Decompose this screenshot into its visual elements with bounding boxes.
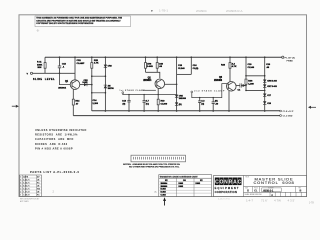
svg-text:CLAMP: CLAMP (77, 62, 85, 65)
svg-text:71 6': 71 6' (261, 199, 268, 203)
svg-text:2N3906 R.A.: 2N3906 R.A. (226, 9, 243, 13)
capacitor C17 (199, 98, 201, 101)
svg-text:4-26-71: 4-26-71 (23, 179, 29, 182)
svg-text:D-663: D-663 (147, 66, 154, 68)
svg-text:9-21-71: 9-21-71 (23, 189, 29, 191)
svg-text:C: C (238, 180, 242, 186)
svg-text:O: O (219, 180, 223, 186)
svg-text:D-663: D-663 (272, 86, 277, 88)
svg-text:THIS SCHEMATIC IS FURNISHED ON: THIS SCHEMATIC IS FURNISHED ONLY FOR USE… (36, 16, 122, 19)
terminal C1-Z (280, 115, 282, 117)
wire clamp rail 1 (123, 94, 177, 95)
svg-text:1-4-7: 1-4-7 (246, 199, 253, 203)
capacitor C13 (128, 95, 130, 101)
svg-text:2N3904: 2N3904 (58, 86, 66, 89)
svg-text:D663: D663 (179, 186, 184, 188)
svg-text:EQUIPMENT: EQUIPMENT (215, 186, 240, 190)
title block outline (214, 176, 307, 197)
svg-text:4.7K: 4.7K (232, 65, 237, 68)
svg-text:CIRCUITS ARE PROPRIETARY IN NA: CIRCUITS ARE PROPRIETARY IN NATURE AND S… (36, 19, 121, 22)
svg-text:R 11: R 11 (37, 62, 42, 64)
conversion chart (159, 175, 212, 197)
svg-text:BIN: BIN (38, 67, 42, 69)
node dots +12 line (105, 110, 266, 112)
diode stack CR6-CR9 (264, 57, 266, 111)
svg-text:(C): (C) (146, 103, 149, 105)
svg-text:4.7K: 4.7K (94, 62, 99, 65)
wire clamp rail 2 (192, 84, 228, 98)
svg-text:2N3906: 2N3906 (214, 80, 223, 82)
svg-text:CORPORATION: CORPORATION (215, 190, 238, 194)
svg-text:D-663: D-663 (161, 192, 166, 194)
svg-text:4 7W: 4 7W (274, 199, 281, 203)
wire collector join Q2 (146, 72, 160, 78)
transistor Q2 (155, 79, 165, 89)
svg-text:CR6: CR6 (147, 64, 152, 66)
svg-text:PARTS LIST A-PL-6008-0-0: PARTS LIST A-PL-6008-0-0 (30, 171, 80, 174)
border frame (19, 15, 307, 197)
capacitor C14b (143, 95, 145, 101)
diode CR10 (236, 85, 240, 87)
svg-text:4-26-71 P.O.: 4-26-71 P.O. (218, 199, 231, 201)
resistor R14 emitter Q1 (72, 89, 74, 115)
svg-text:UNLESS OTHERWISE INDICATED: UNLESS OTHERWISE INDICATED (35, 129, 87, 132)
terminal C1-E (280, 110, 282, 112)
svg-text:3N756: 3N756 (108, 88, 115, 90)
input terminal SLIDE LEVEL (30, 72, 32, 74)
resistor R23 collector Q3 (229, 57, 231, 82)
wire Q1 collector (74, 57, 76, 80)
svg-text:CL200: CL200 (161, 103, 168, 105)
svg-text:3: 3 (20, 189, 21, 191)
diode chain CR3 CR4 (104, 57, 106, 111)
svg-text:NO OTHER REV PREFIX 5% PRECISI: NO OTHER REV PREFIX 5% PRECISION 1% TOL (129, 167, 180, 169)
wire bottom bar stage3 (246, 89, 265, 91)
svg-text:1-17-72: 1-17-72 (23, 192, 29, 194)
wire top bus (45, 56, 282, 58)
svg-text:C1-Z GND: C1-Z GND (283, 116, 293, 118)
diode CR5b (175, 95, 178, 98)
wire Q2 collector out (165, 83, 177, 85)
wire H bar stage3 (246, 75, 265, 77)
svg-text:CR1: CR1 (77, 60, 82, 62)
wire tee1 (92, 75, 106, 77)
svg-text:6-14-71: 6-14-71 (23, 182, 29, 185)
svg-text:C-663: C-663 (161, 195, 166, 197)
svg-text:4 3 5': 4 3 5' (288, 199, 296, 203)
svg-text:CL(8): CL(8) (193, 68, 199, 70)
svg-text:SLIDE LEVEL: SLIDE LEVEL (33, 79, 55, 81)
svg-text:DATE: DATE (23, 176, 29, 179)
diode CR4 (104, 85, 107, 88)
svg-text:2N3904: 2N3904 (143, 79, 152, 82)
notes block (35, 129, 87, 150)
svg-text:D-663: D-663 (83, 82, 88, 84)
resistor R11 (44, 57, 46, 73)
svg-text:2N1566: 2N1566 (179, 98, 187, 100)
svg-text:R: R (229, 180, 233, 186)
svg-text:CL240: CL240 (248, 66, 255, 69)
svg-text:FSCM: FSCM (254, 187, 258, 189)
svg-text:P1-10Y (X): P1-10Y (X) (285, 57, 296, 59)
capacitor C15 leg (176, 57, 178, 111)
svg-text:1,200: 1,200 (93, 103, 99, 105)
resistor R18 collector load (156, 57, 158, 72)
svg-text:D-663: D-663 (272, 80, 277, 82)
svg-text:1st STAGE CLAMP: 1st STAGE CLAMP (119, 89, 145, 92)
svg-text:D-663: D-663 (161, 189, 166, 191)
resistor R19 emitter Q2 (157, 88, 159, 111)
svg-text:(4): (4) (201, 102, 204, 105)
revision table (20, 175, 42, 196)
svg-text:(0): (0) (215, 101, 218, 103)
wire +12 line (92, 110, 280, 112)
svg-text:3-08-72: 3-08-72 (23, 195, 29, 197)
disclaimer box (35, 16, 131, 27)
wire tee2 (92, 92, 106, 94)
svg-text:NOTES: # MEANS ELEC 5% AND 10: NOTES: # MEANS ELEC 5% AND 10% TOL PREFI… (123, 163, 180, 166)
svg-text:COPYRIGHT 1961 BY SOUTH TELEVI: COPYRIGHT 1961 BY SOUTH TELEVISION CORPO… (36, 22, 93, 25)
connector J1 (131, 155, 186, 162)
svg-text:PWBD: PWBD (287, 61, 294, 63)
svg-text:2N3904: 2N3904 (196, 9, 207, 13)
svg-text:2nd STAGE CLAMP: 2nd STAGE CLAMP (194, 89, 225, 92)
terminal P1-10Y (282, 56, 284, 58)
pencil handwriting bottom (246, 199, 295, 203)
svg-text:▾: ▾ (151, 9, 153, 13)
svg-text:CONTROL 6008: CONTROL 6008 (253, 180, 294, 185)
svg-text:6008-2-1: 6008-2-1 (263, 189, 274, 192)
svg-text:D663: D663 (179, 183, 184, 185)
svg-text:5: 5 (20, 183, 21, 185)
resistor R26 (245, 57, 247, 90)
svg-text:(0): (0) (123, 103, 126, 105)
diode CR5c (175, 102, 178, 105)
svg-text:2: 2 (20, 192, 21, 194)
svg-text:8-02-71: 8-02-71 (23, 186, 29, 188)
node 1st stage clamp (122, 92, 124, 94)
svg-text:D663: D663 (196, 183, 201, 185)
svg-text:DIODES ARE D-663: DIODES ARE D-663 (35, 143, 68, 146)
border arrow bottom (163, 197, 166, 201)
svg-text:A: A (271, 194, 273, 197)
svg-text:TITLE: TITLE (245, 176, 249, 178)
svg-text:A: A (233, 180, 237, 186)
svg-text:2N3906: 2N3906 (161, 186, 168, 188)
capacitor C12 (59, 57, 61, 66)
title block row3 (244, 191, 307, 193)
svg-text:100K: 100K (37, 64, 43, 66)
svg-text:7: 7 (20, 177, 21, 179)
wire input (33, 72, 75, 74)
title block row2 (244, 186, 307, 188)
transistor Q3 (227, 82, 237, 92)
resistor R15 (91, 57, 93, 111)
svg-text:1,200: 1,200 (248, 83, 254, 85)
svg-text:6: 6 (20, 180, 21, 182)
capacitor C18b (212, 98, 214, 102)
svg-text:CL240: CL240 (178, 67, 185, 70)
svg-text:1: 1 (20, 195, 21, 197)
svg-text:N: N (224, 180, 228, 186)
resistor R17 collector load (145, 57, 147, 72)
border arrow right (308, 106, 311, 109)
svg-text:CAPACITORS ARE MFD: CAPACITORS ARE MFD (35, 138, 74, 141)
svg-text:RESISTORS ARE 1/4W,5%: RESISTORS ARE 1/4W,5% (35, 134, 78, 137)
logo CONRAC (215, 178, 242, 186)
svg-text:PIN # NOS ARE A 6008P: PIN # NOS ARE A 6008P (35, 147, 73, 150)
wire Q3 emitter (228, 91, 230, 111)
svg-text:2N3904: 2N3904 (161, 182, 169, 185)
node 2nd stage clamp (191, 91, 193, 93)
svg-text:APP DATE: APP DATE (20, 200, 30, 203)
border arrow left (16, 105, 19, 108)
svg-text:(H): (H) (179, 104, 182, 106)
svg-text:J-78: J-78 (309, 202, 314, 205)
wire H bar stage2 (177, 73, 192, 75)
svg-text:C1-E +12 P: C1-E +12 P (283, 111, 294, 113)
svg-text:1-7B-1: 1-7B-1 (159, 9, 168, 13)
wire GND line (73, 115, 280, 117)
svg-text:-B-: -B- (36, 30, 40, 33)
capacitor C16 leg (190, 57, 192, 74)
wire Q2 base (143, 89, 156, 91)
svg-text:B: B (155, 190, 157, 194)
node dots top bus (59, 56, 266, 58)
diode CR2 (80, 84, 92, 86)
transistor Q1 (70, 80, 80, 90)
wire Q1 base (60, 73, 71, 84)
